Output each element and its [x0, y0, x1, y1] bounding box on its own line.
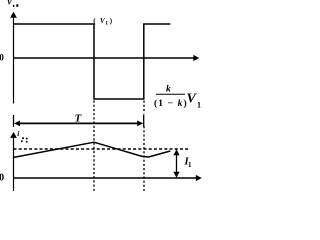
- svg-text:1: 1: [188, 161, 192, 169]
- i_L zero line (time axis): [13, 177, 199, 179]
- dashed vertical line at kT (x=94.5): [93, 101, 95, 192]
- time axis arrowhead (i plot): [196, 175, 202, 181]
- label (V_1): [93, 17, 113, 27]
- T dimension left bar: [13, 115, 15, 127]
- i_L axis vertical: [13, 136, 15, 191]
- T arrowhead left: [14, 121, 20, 127]
- T dimension right bar: [143, 115, 145, 127]
- label v_L: [8, 0, 19, 7]
- label I_1: [184, 157, 193, 170]
- svg-text:1: 1: [197, 101, 201, 110]
- T dimension arrow line: [17, 122, 140, 124]
- average current double arrow shaft: [176, 153, 178, 174]
- svg-text:(1 − k): (1 − k): [154, 98, 188, 109]
- label k/(1-k) V_1 fraction: [154, 85, 201, 110]
- v_L axis vertical: [13, 16, 15, 104]
- i_L current waveform: [13, 142, 170, 157]
- double arrow head down: [173, 172, 179, 178]
- dashed average current line: [14, 148, 190, 150]
- dashed vertical line at T (x=144, upper part): [143, 101, 145, 114]
- i_L axis arrowhead: [10, 132, 17, 138]
- T arrowhead right: [137, 121, 143, 127]
- double arrow head up: [173, 149, 179, 155]
- svg-text:0: 0: [0, 173, 4, 184]
- v_L axis arrowhead: [10, 12, 17, 18]
- v_L waveform: [13, 24, 170, 99]
- v_L zero line (time axis): [13, 57, 196, 59]
- svg-text:0: 0: [0, 53, 4, 63]
- label i_L: [17, 129, 27, 143]
- svg-text:k: k: [166, 85, 171, 95]
- dashed vertical line at T (x=144, lower part): [143, 126, 145, 191]
- svg-text:1: 1: [105, 21, 108, 27]
- time axis arrowhead (v plot): [193, 55, 199, 61]
